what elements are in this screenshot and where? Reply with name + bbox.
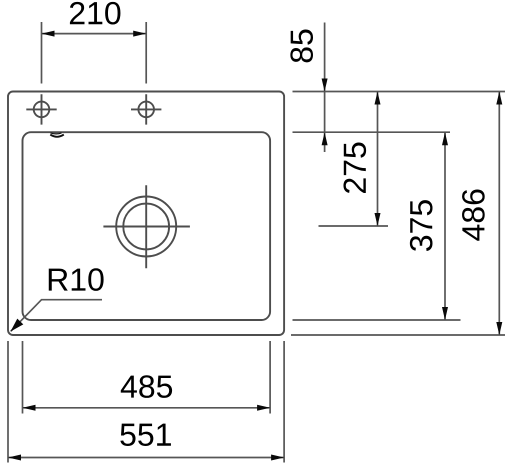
ext line bowl right down [269, 341, 271, 414]
leader line R10 [11, 300, 102, 332]
arrow 375 top [442, 132, 448, 145]
arrow 486 bottom [496, 322, 502, 335]
arrow 85 top (down) [322, 79, 328, 92]
arrow 551 right [271, 455, 284, 461]
faucet hole right crosshair [131, 94, 161, 124]
ref line bowl bottom right [293, 319, 461, 321]
ext line hole1 up [41, 22, 43, 84]
ext line bowl left down [22, 341, 24, 414]
arrow 375 bottom [442, 307, 448, 320]
label 486 [462, 190, 485, 241]
arrow 551 left [8, 455, 21, 461]
arrow R10 leader [11, 319, 24, 332]
label 551 [120, 424, 171, 446]
ext line rim right down [283, 341, 285, 463]
dim line 551 [8, 457, 284, 459]
faucet hole right [138, 102, 154, 118]
arrow 210 left [42, 31, 55, 37]
arrow 275 bottom [375, 213, 381, 226]
arrow 85 bottom (up) [322, 132, 328, 145]
label R10 [49, 268, 104, 291]
label 375 [410, 200, 433, 251]
sink bowl inner rect [23, 132, 271, 320]
label 85 [290, 30, 313, 63]
arrow 485 right [257, 405, 270, 411]
ref line rim top right [293, 91, 506, 93]
ref line drain center right [319, 225, 389, 227]
dim line 375 [444, 132, 446, 320]
faucet hole left [34, 102, 50, 118]
arrow 485 left [23, 405, 36, 411]
arrow 486 top [496, 92, 502, 105]
drain outer circle [116, 197, 176, 257]
dim line 210 [42, 33, 147, 35]
label 210 [70, 2, 121, 25]
ref line rim bottom right [291, 334, 505, 336]
arrow 210 right [133, 31, 146, 37]
drain crosshair [103, 185, 189, 268]
dim line 85 [324, 23, 326, 153]
arrow 275 top [375, 92, 381, 105]
overflow mark [50, 133, 64, 137]
sink outer rim [8, 92, 284, 336]
drain inner circle [123, 204, 169, 250]
label 275 [343, 143, 366, 193]
dim line 275 [377, 92, 379, 227]
ref line bowl top right [293, 131, 451, 133]
ext line rim left down [7, 341, 9, 463]
dim line 485 [23, 407, 271, 409]
ext line hole2 up [145, 22, 147, 84]
faucet hole left crosshair [26, 94, 56, 124]
label 485 [121, 375, 172, 398]
dim line 486 [498, 92, 500, 336]
